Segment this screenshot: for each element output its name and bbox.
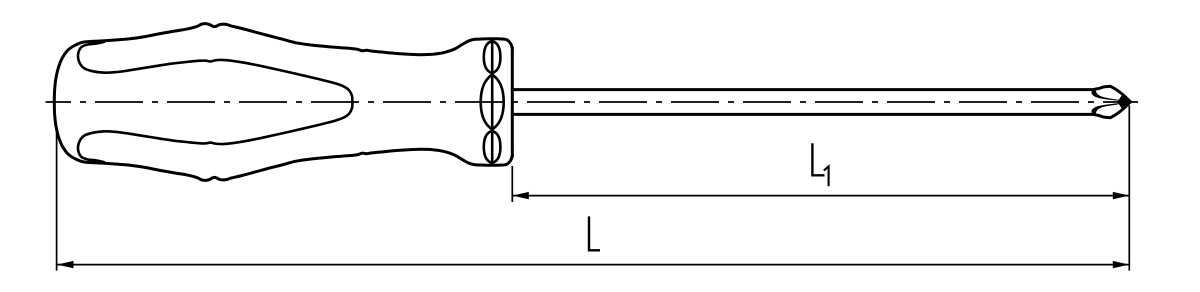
handle grip recess	[78, 42, 352, 162]
dimension line L	[57, 264, 1129, 266]
shaft bottom line + tip taper	[512, 102, 1130, 118]
extension line right (x=1129)	[1128, 106, 1130, 271]
collar flute silhouette line	[491, 41, 494, 164]
label L1	[812, 145, 823, 176]
collar flute top	[484, 41, 501, 73]
phillips groove lower	[1091, 102, 1129, 115]
extension line left (x=57)	[56, 131, 58, 271]
tip solid wedge	[1118, 96, 1131, 109]
phillips groove upper	[1091, 89, 1129, 102]
shaft top line + tip taper	[512, 86, 1130, 102]
extension line middle (x=512)	[511, 166, 513, 202]
collar flute bottom	[484, 131, 501, 163]
centerline (axis)	[46, 101, 1139, 103]
dimension line L1	[512, 195, 1129, 197]
collar flute middle	[481, 75, 504, 130]
label L	[589, 218, 599, 251]
handle outer contour	[54, 24, 512, 181]
